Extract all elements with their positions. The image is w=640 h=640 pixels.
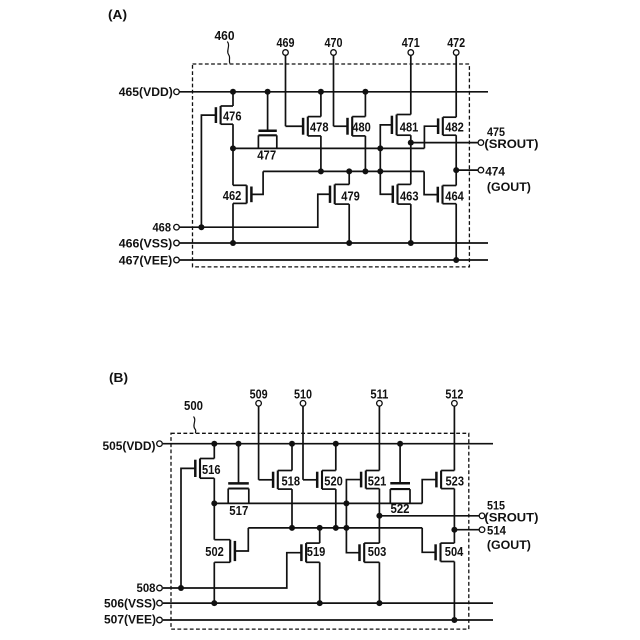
wire SROUT output (A) (411, 142, 478, 144)
wire drain of 480 to VDD rail (364, 92, 366, 117)
junction VDD / gate 522 (397, 441, 403, 447)
leader squiggle for 500 (194, 417, 196, 434)
svg-text:465(VDD): 465(VDD) (119, 85, 173, 99)
terminal 506 (VSS) (157, 600, 163, 606)
terminal 511 (377, 401, 383, 407)
transistor 463 (393, 184, 419, 204)
junction VDD / drain 520 (333, 441, 339, 447)
wire terminal 510 to gate of 520 (302, 406, 304, 480)
transistor 478 (303, 117, 328, 136)
junction VDD / drain 478 (318, 89, 324, 95)
svg-text:521: 521 (368, 473, 387, 488)
wire source of 503 to VSS rail (378, 562, 380, 603)
junction VSS / source 519 (317, 600, 323, 606)
svg-text:468: 468 (153, 221, 172, 235)
junction node2 / drain 519 (317, 525, 323, 531)
svg-text:506(VSS): 506(VSS) (104, 597, 156, 611)
junction node1 / source 476 / drain 462 (230, 145, 236, 151)
svg-text:504: 504 (445, 544, 464, 559)
terminal 508 (157, 585, 163, 591)
junction VDD / drain 480 (362, 89, 368, 95)
svg-text:508: 508 (137, 581, 156, 595)
wire source of 523 / drain of 504 (GOUT column) (453, 489, 455, 543)
terminal 471 (408, 50, 414, 56)
junction node2 / source 480 (362, 168, 368, 174)
wire internal node 1 (B) (214, 502, 422, 504)
terminal 472 (453, 50, 459, 56)
junction VSS / source 462 (230, 240, 236, 246)
junction VSS / source 502 (211, 600, 217, 606)
wire SROUT output (B) (379, 515, 479, 517)
svg-text:500: 500 (184, 398, 203, 413)
wire VDD rail (A) (180, 91, 489, 93)
wire drain of 479 to internal node (348, 171, 350, 184)
transistor 502 (205, 540, 235, 563)
wire gate of 522 to VDD rail (399, 444, 401, 484)
wire VSS rail (A) (180, 242, 489, 244)
svg-text:(GOUT): (GOUT) (487, 538, 531, 552)
wire drain of 518 to VDD rail (291, 444, 293, 471)
leader squiggle for 460 (227, 42, 230, 64)
wire source of 504 to VEE rail (453, 562, 455, 621)
junction VSS / source 463 (408, 240, 414, 246)
transistor 522 (390, 483, 410, 516)
svg-text:466(VSS): 466(VSS) (119, 236, 173, 250)
wire drain of 476 to VDD rail (232, 92, 234, 106)
wire VEE rail (B) (163, 619, 493, 621)
junction GOUT / source 523 (451, 527, 457, 533)
wire gate of 482 down to internal node (424, 126, 438, 148)
svg-text:477: 477 (257, 148, 276, 163)
terminal 474 (GOUT) (478, 167, 484, 173)
wire GOUT output (B) (454, 529, 479, 531)
wire gate of 464 up to internal node (424, 171, 438, 194)
wire drain of 519 to internal node (319, 528, 321, 543)
svg-text:512: 512 (445, 386, 463, 401)
wire source of 518 to internal node (291, 489, 293, 528)
terminal 510 (300, 401, 306, 407)
wire source of 516 to internal node (213, 478, 215, 503)
wire drain of 478 to VDD rail (320, 92, 322, 117)
svg-text:474: 474 (485, 164, 505, 178)
terminal 514 (GOUT) (479, 527, 485, 533)
svg-text:471: 471 (402, 35, 420, 50)
wire gate of 518 toward terminal 509 (259, 479, 274, 481)
wire source of 520 to internal node (335, 489, 337, 528)
junction VDD / drain 476 (230, 89, 236, 95)
wire drain of 520 to VDD rail (335, 444, 337, 471)
junction VDD / gate 517 (236, 441, 242, 447)
transistor 476 (216, 106, 242, 124)
transistor 477 (257, 131, 277, 163)
svg-text:479: 479 (341, 188, 360, 203)
terminal 515 (SROUT) (479, 513, 485, 519)
wire internal node 1 (A) (233, 147, 424, 149)
transistor 523 (436, 471, 464, 489)
junction 468 / gate 476 (198, 224, 204, 230)
svg-text:460: 460 (215, 28, 235, 43)
wire gate of 502 up to internal node (235, 528, 248, 551)
wire VDD rail (B) (163, 443, 493, 445)
terminal 467 (VEE) (174, 257, 180, 263)
wire source of 519 to VSS rail (319, 562, 321, 603)
svg-text:520: 520 (324, 473, 343, 488)
wire drain of 502 to internal node (213, 503, 215, 539)
svg-text:463: 463 (400, 188, 419, 203)
junction node2 / source 520 (333, 525, 339, 531)
svg-text:469: 469 (277, 35, 295, 50)
wire terminal 472 to drain of 482 (455, 55, 457, 117)
transistor 481 (392, 115, 418, 136)
wire linking gates of 481 and 463 to internal nets (380, 125, 393, 194)
transistor 516 (195, 459, 220, 479)
wire terminal 509 to gate of 518 (258, 406, 260, 480)
terminal 470 (331, 50, 337, 56)
transistor 462 (223, 185, 252, 203)
junction 508 / gate 516 (178, 585, 184, 591)
junction GOUT / source 482 (453, 167, 459, 173)
wire source of 502 to VSS rail (213, 562, 215, 603)
wire source of 521 / drain of 503 (SROUT column) (378, 489, 380, 543)
svg-text:511: 511 (370, 386, 388, 401)
svg-text:472: 472 (447, 35, 465, 50)
junction VSS / source 479 (346, 240, 352, 246)
terminal 512 (452, 401, 458, 407)
wire VSS rail (B) (163, 602, 493, 604)
wire gate of 516 down to node 508 (181, 468, 195, 588)
svg-text:519: 519 (307, 544, 326, 559)
transistor 479 (330, 184, 360, 204)
wire source of 481 / drain of 463 (SROUT column) (410, 135, 412, 184)
dashed circuit boundary box 500 (171, 433, 469, 629)
svg-text:514: 514 (487, 523, 506, 537)
transistor 518 (273, 471, 300, 490)
svg-text:481: 481 (400, 120, 419, 135)
junction node1 / gate link 521-503 (343, 500, 349, 506)
wire drain of 462 to internal node (232, 148, 234, 185)
junction node2 / source 518 (289, 525, 295, 531)
terminal 466 (VSS) (174, 240, 180, 246)
wire source of 476 to internal node (232, 124, 234, 148)
svg-text:507(VEE): 507(VEE) (104, 613, 156, 627)
terminal 465 (VDD) (174, 89, 180, 95)
wire gate of 478 toward terminal 469 (286, 125, 304, 127)
svg-text:510: 510 (294, 386, 312, 401)
junction node2 / gate link 481-463 (377, 168, 383, 174)
wire linking gates of 521 and 503 to internal nets (346, 480, 361, 553)
junction node1 / gate link 481-463 (377, 145, 383, 151)
svg-text:516: 516 (202, 462, 221, 477)
svg-text:517: 517 (229, 503, 248, 518)
wire source of 464 to VEE rail (455, 204, 457, 260)
junction VDD / drain 518 (289, 441, 295, 447)
junction VDD / drain 516 (211, 441, 217, 447)
svg-text:518: 518 (282, 473, 301, 488)
transistor 464 (438, 186, 465, 204)
junction node2 / source 478 (318, 168, 324, 174)
wire gate of 517 to VDD rail (238, 444, 240, 484)
svg-text:523: 523 (446, 473, 465, 488)
terminal 469 (283, 50, 289, 56)
terminal 507 (VEE) (157, 617, 163, 623)
transistor 521 (361, 471, 386, 489)
junction node2 / drain 479 (346, 168, 352, 174)
svg-text:482: 482 (445, 120, 464, 135)
wire gate of 520 toward terminal 510 (303, 479, 317, 481)
junction SROUT / source 521 (376, 513, 382, 519)
svg-text:503: 503 (368, 544, 387, 559)
svg-text:(GOUT): (GOUT) (487, 180, 531, 194)
transistor 519 (301, 543, 325, 562)
wire gate of 480 toward terminal 470 (334, 125, 348, 127)
svg-text:502: 502 (205, 544, 224, 559)
wire terminal 512 to drain of 523 (453, 406, 455, 470)
transistor 503 (360, 543, 387, 562)
junction node1 / source 516 / drain 502 (211, 500, 217, 506)
wire source of 463 to VSS rail (410, 204, 412, 243)
wire source of 478 to internal node (320, 136, 322, 172)
svg-text:509: 509 (250, 386, 268, 401)
wire internal node 2 (B) (248, 527, 422, 529)
transistor 520 (317, 471, 343, 490)
svg-text:480: 480 (352, 120, 371, 135)
wire input 468 to gate of 479 (180, 194, 331, 227)
wire gate of 476 down to node 468 (201, 115, 216, 227)
wire gate of 523 down to internal node (422, 480, 436, 504)
wire terminal 471 to drain of 481 (410, 55, 412, 114)
terminal 475 (SROUT) (478, 140, 484, 146)
junction VEE / source 504 (451, 617, 457, 623)
transistor 517 (228, 483, 249, 518)
wire source of 479 to VSS rail (348, 204, 350, 243)
wire GOUT output (A) (456, 169, 478, 171)
wire terminal 469 to gate of 478 (285, 55, 287, 126)
wire terminal 470 to gate of 480 (333, 55, 335, 126)
wire gate of 462 up to internal node (251, 171, 263, 194)
svg-text:470: 470 (325, 35, 343, 50)
svg-text:505(VDD): 505(VDD) (103, 439, 156, 453)
wire internal node 2 (A) (263, 170, 424, 172)
terminal 468 (174, 224, 180, 230)
junction SROUT / source 481 (408, 140, 414, 146)
junction VDD / gate 477 (265, 89, 271, 95)
transistor 482 (438, 117, 464, 135)
svg-text:(A): (A) (108, 7, 127, 22)
wire gate of 504 up to internal node (422, 528, 435, 552)
dashed circuit boundary box 460 (193, 64, 470, 267)
wire source of 462 to VSS rail (232, 203, 234, 243)
wire drain of 516 to VDD rail (213, 444, 215, 459)
transistor 504 (436, 543, 464, 561)
svg-text:(SROUT): (SROUT) (484, 137, 538, 151)
svg-text:467(VEE): 467(VEE) (119, 253, 173, 267)
wire VEE rail (A) (180, 259, 489, 261)
svg-text:(B): (B) (109, 370, 128, 385)
wire terminal 511 to drain of 521 (378, 406, 380, 470)
junction node2 / gate link 521-503 (343, 525, 349, 531)
svg-text:476: 476 (223, 108, 242, 123)
wire input 508 to gate of 519 (163, 553, 302, 588)
terminal 509 (256, 401, 262, 407)
terminal 505 (VDD) (157, 441, 163, 447)
svg-text:464: 464 (445, 188, 464, 203)
wire gate of 477 to VDD rail (267, 92, 269, 131)
junction VEE / source 464 (453, 257, 459, 263)
svg-text:462: 462 (223, 188, 242, 203)
svg-text:478: 478 (310, 120, 329, 135)
wire source of 480 to internal node (364, 136, 366, 172)
wire source of 482 / drain of 464 (GOUT column) (455, 135, 457, 185)
junction VSS / source 503 (376, 600, 382, 606)
transistor 480 (348, 117, 371, 136)
